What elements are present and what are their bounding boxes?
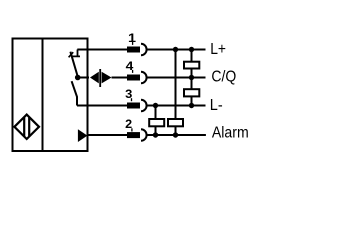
junction dot row2 left column: [173, 132, 178, 137]
resistor A (L- to Alarm): [149, 119, 164, 126]
branch L- to alarm resistor A: [155, 106, 157, 120]
svg-text:2: 2: [125, 118, 132, 131]
bidirectional C/Q symbol: right triangle: [102, 72, 112, 84]
wire row 1 (L+ feed, box to connector 1): [77, 49, 127, 51]
left pull column (L+ to alarm resistor): [175, 50, 177, 120]
box divider: [42, 39, 44, 152]
switch lower arm (alternate throw): [72, 81, 77, 105]
junction dot row1 left column: [173, 47, 178, 52]
svg-text:Alarm: Alarm: [212, 124, 249, 141]
svg-text:C/Q: C/Q: [211, 68, 236, 85]
wire row 2 (triangle to connector 2): [87, 134, 128, 136]
bidirectional C/Q symbol: left triangle: [90, 72, 99, 84]
switch fixed contact (step + crossbar): [72, 50, 80, 57]
inductive sensor diamond symbol: [14, 115, 39, 139]
wire resistor A to alarm line: [155, 126, 157, 135]
switch arm tip tick: [69, 52, 74, 57]
right pull column: [191, 50, 193, 62]
alarm output triangle: [78, 129, 88, 142]
junction dot row4 right column: [189, 75, 194, 80]
resistor C (L+ to C/Q): [184, 62, 199, 69]
switch pivot junction dot: [75, 75, 81, 81]
wire row 3 (L- feed, box to connector 3): [77, 105, 128, 107]
resistor B (column to Alarm): [168, 119, 183, 126]
sensor body box: [13, 39, 88, 152]
junction dot row1 right column: [189, 47, 194, 52]
connector pin 1: [127, 32, 206, 55]
junction dot row2 branch A: [153, 132, 158, 137]
wire row 4 (symbol to connector 4): [112, 77, 128, 79]
wire resistor B to alarm line: [175, 126, 177, 135]
wire row 4 inside box (pivot to edge): [78, 77, 89, 79]
resistor D (C/Q to L-): [184, 89, 199, 96]
bidirectional C/Q symbol: center bar: [99, 69, 101, 87]
connector pin 4: [126, 60, 206, 84]
svg-text:L-: L-: [210, 97, 223, 114]
wire C/Q to resistor D: [191, 78, 193, 90]
junction dot row3 right column: [189, 103, 194, 108]
wire resistor D to L-: [191, 96, 193, 105]
connector pin 3: [125, 88, 205, 111]
switch arm: [70, 52, 77, 77]
wire resistor C to C/Q: [191, 69, 193, 78]
junction dot row3 branch A: [153, 103, 158, 108]
connector pin 2: [125, 118, 206, 141]
svg-text:L+: L+: [210, 41, 226, 58]
